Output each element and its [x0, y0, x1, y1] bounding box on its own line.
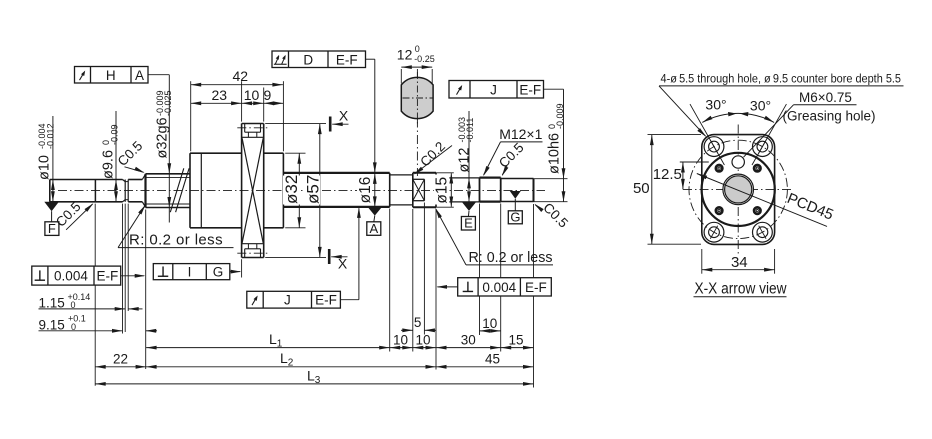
svg-text:H: H — [106, 68, 116, 83]
perpendicularity frame I G — [153, 264, 230, 280]
dim 12 0/-0.25 across flats — [401, 66, 432, 68]
dim 42 — [191, 84, 283, 86]
svg-text:23: 23 — [212, 87, 228, 103]
relief groove phi9.6 — [123, 180, 126, 182]
svg-text:E-F: E-F — [96, 269, 118, 284]
svg-text:G: G — [213, 265, 224, 280]
svg-text:E-F: E-F — [525, 280, 547, 295]
circle horizontal centerline — [403, 97, 433, 99]
flange bolt hole centerlines — [237, 127, 268, 129]
svg-text:R: 0.2 or less: R: 0.2 or less — [129, 232, 223, 249]
dim row L3 — [95, 383, 533, 385]
svg-text:9.15: 9.15 — [39, 317, 65, 332]
flange X cross diagonals — [242, 138, 263, 243]
phi32 extension lines — [285, 152, 305, 154]
svg-text:10: 10 — [244, 87, 260, 103]
svg-text:50: 50 — [633, 180, 650, 197]
phi32g6 diameter dim arrows — [167, 163, 171, 174]
perpendicularity frame 0.004 E-F (left) — [32, 266, 121, 285]
step line between phi10 and phi9.6 — [94, 180, 96, 202]
extension lines for 42/23/10/9 — [190, 81, 192, 151]
svg-text:0.004: 0.004 — [54, 269, 88, 284]
svg-text:E-F: E-F — [336, 52, 358, 67]
perpendicularity frame 0.004 E-F (right) — [458, 278, 552, 296]
phi16 dim arrows — [374, 173, 376, 207]
svg-text:45: 45 — [485, 351, 500, 366]
datum F at left end — [44, 202, 59, 211]
30deg hole centerline (left) — [690, 104, 724, 165]
phi10 dim arrows at left end — [52, 116, 54, 202]
svg-text:22: 22 — [113, 351, 128, 366]
svg-text:X: X — [339, 108, 349, 124]
svg-text:34: 34 — [731, 254, 748, 271]
svg-text:A: A — [135, 68, 144, 83]
M12x1 thread section — [479, 178, 481, 202]
leader from J frame to phi10h6 dim line — [544, 88, 564, 90]
svg-text:30: 30 — [461, 332, 476, 347]
total runout frame D E-F — [272, 51, 366, 68]
svg-text:4-ø 5.5 through hole, ø 9.5 co: 4-ø 5.5 through hole, ø 9.5 counter bore… — [661, 71, 902, 85]
shaft left end journal phi10 outline — [49, 180, 51, 202]
flange horizontal centerline — [683, 188, 794, 190]
svg-text:E-F: E-F — [315, 293, 337, 308]
30deg hole centerline (right) — [752, 104, 786, 165]
dim row 22 / L2 / 45 — [95, 366, 533, 368]
svg-text:12.5: 12.5 — [653, 166, 682, 183]
svg-text:J: J — [490, 82, 497, 97]
view arrow X (bottom) — [328, 249, 331, 264]
svg-text:D: D — [303, 52, 313, 67]
phi12 bearing journal section — [435, 173, 437, 207]
phi15 dim arrows — [450, 173, 452, 207]
dim 50 (flange height) — [648, 134, 702, 136]
main shaft centerline — [58, 190, 545, 192]
svg-text:10: 10 — [393, 332, 408, 347]
svg-text:0: 0 — [415, 44, 420, 54]
nut mounting screw holes — [715, 164, 723, 172]
circle vertical centerline (over fill) — [416, 72, 418, 124]
svg-text:M12×1: M12×1 — [499, 126, 542, 142]
label phi32 — [283, 176, 300, 205]
phi32 face extension line (x=145.7) — [145, 210, 147, 370]
phi57 extension lines — [265, 123, 326, 125]
datum E — [462, 202, 476, 211]
dim row L1 / 10 / 10 / 30 / 15 — [146, 347, 533, 349]
svg-text:-0.25: -0.25 — [414, 54, 435, 64]
dim 12.5 — [680, 161, 709, 163]
greasing hole M6 — [732, 156, 744, 168]
flange bolt counterbore (top) — [244, 124, 246, 133]
runout frame H-A — [75, 67, 149, 84]
svg-text:G: G — [510, 210, 520, 225]
cross-section of flats (gray circle) — [401, 77, 433, 118]
phi32 dim line — [298, 153, 300, 228]
ball screw thread section phi16 — [283, 172, 389, 174]
leader from D frame down to screw OD / phi16 dim line — [366, 58, 375, 60]
flange vertical centerline — [737, 125, 739, 255]
svg-text:9: 9 — [264, 87, 272, 103]
nut pilot boss circle — [702, 153, 775, 226]
svg-text:30°: 30° — [750, 98, 771, 114]
corner counterbored holes — [704, 137, 724, 157]
svg-text:0.004: 0.004 — [482, 280, 516, 295]
svg-text:ø32g6-0.009-0.025: ø32g6-0.009-0.025 — [155, 90, 174, 158]
svg-text:M6×0.75: M6×0.75 — [799, 90, 852, 105]
intermediate section — [390, 174, 413, 176]
svg-text:ø16: ø16 — [357, 177, 374, 204]
phi10h6 end journal — [501, 178, 534, 180]
datum G on phi10h6 — [510, 191, 521, 199]
flange bolt counterbore (bottom) — [244, 249, 246, 258]
label phi15 (with white mask) — [434, 175, 450, 205]
leader from H-A frame to phi32g6 dim line — [148, 74, 169, 76]
groove extension lines — [122, 204, 124, 334]
svg-text:42: 42 — [233, 68, 249, 84]
svg-text:1.15: 1.15 — [39, 296, 65, 311]
svg-text:5: 5 — [414, 315, 422, 330]
svg-text:ø15: ø15 — [433, 177, 450, 204]
phi32g6 journal section — [144, 174, 146, 208]
svg-text:15: 15 — [508, 332, 523, 347]
label PCD45 with leader — [697, 174, 827, 227]
svg-text:12: 12 — [397, 47, 413, 63]
angular dimension arc 30-30 — [702, 113, 774, 122]
svg-text:ø32: ø32 — [282, 175, 301, 204]
wrench flat box with cross — [423, 179, 425, 200]
extension lines down to dim rows — [389, 209, 391, 352]
svg-text:10: 10 — [482, 316, 497, 331]
label phi57 — [305, 176, 321, 205]
svg-text:F: F — [48, 221, 56, 236]
double slash break marks on phi32g6 — [170, 168, 184, 212]
svg-text:R: 0.2 or less: R: 0.2 or less — [469, 250, 553, 266]
chamfer C0.5 into phi32g6 face — [142, 174, 145, 179]
nut body cylinder — [189, 153, 191, 228]
dim 34 (flange width) — [701, 249, 703, 274]
step extension line (x=95.2) — [94, 204, 96, 386]
svg-text:X: X — [338, 255, 348, 271]
nut boss — [264, 152, 284, 154]
runout frame J E-F (bottom) — [247, 291, 341, 308]
phi15 extension lines — [436, 172, 454, 174]
svg-text:A: A — [369, 221, 378, 236]
svg-text:E: E — [464, 216, 473, 231]
phi15 section with wrench flats — [412, 173, 414, 207]
svg-text:E-F: E-F — [519, 82, 541, 97]
screw shaft cross-section (gray) — [725, 176, 752, 203]
svg-text:I: I — [188, 265, 192, 280]
svg-text:J: J — [284, 293, 291, 308]
phi9.6 dim arrows — [115, 111, 117, 202]
phi10h6 extension lines — [534, 178, 568, 180]
datum A — [368, 207, 382, 216]
bolt circle PCD45 (dash-dot) — [689, 140, 787, 238]
label phi16 — [357, 177, 372, 205]
center bore outer circle — [723, 174, 754, 205]
section cut vertical centerline to cross-section circle — [416, 69, 418, 176]
view arrow X (top) — [329, 117, 332, 132]
svg-text:30°: 30° — [705, 97, 726, 113]
dim chain 23 10 9 — [191, 102, 284, 104]
flange outline (X-X view) — [702, 135, 775, 245]
runout frame J E-F (top right) — [449, 81, 544, 99]
nut flange (X-crossed) — [241, 124, 243, 258]
svg-text:ø57: ø57 — [303, 175, 322, 204]
svg-text:X-X arrow view: X-X arrow view — [695, 281, 788, 298]
phi57 dim line — [319, 124, 321, 258]
svg-text:(Greasing hole): (Greasing hole) — [783, 109, 876, 124]
svg-text:10: 10 — [415, 332, 430, 347]
